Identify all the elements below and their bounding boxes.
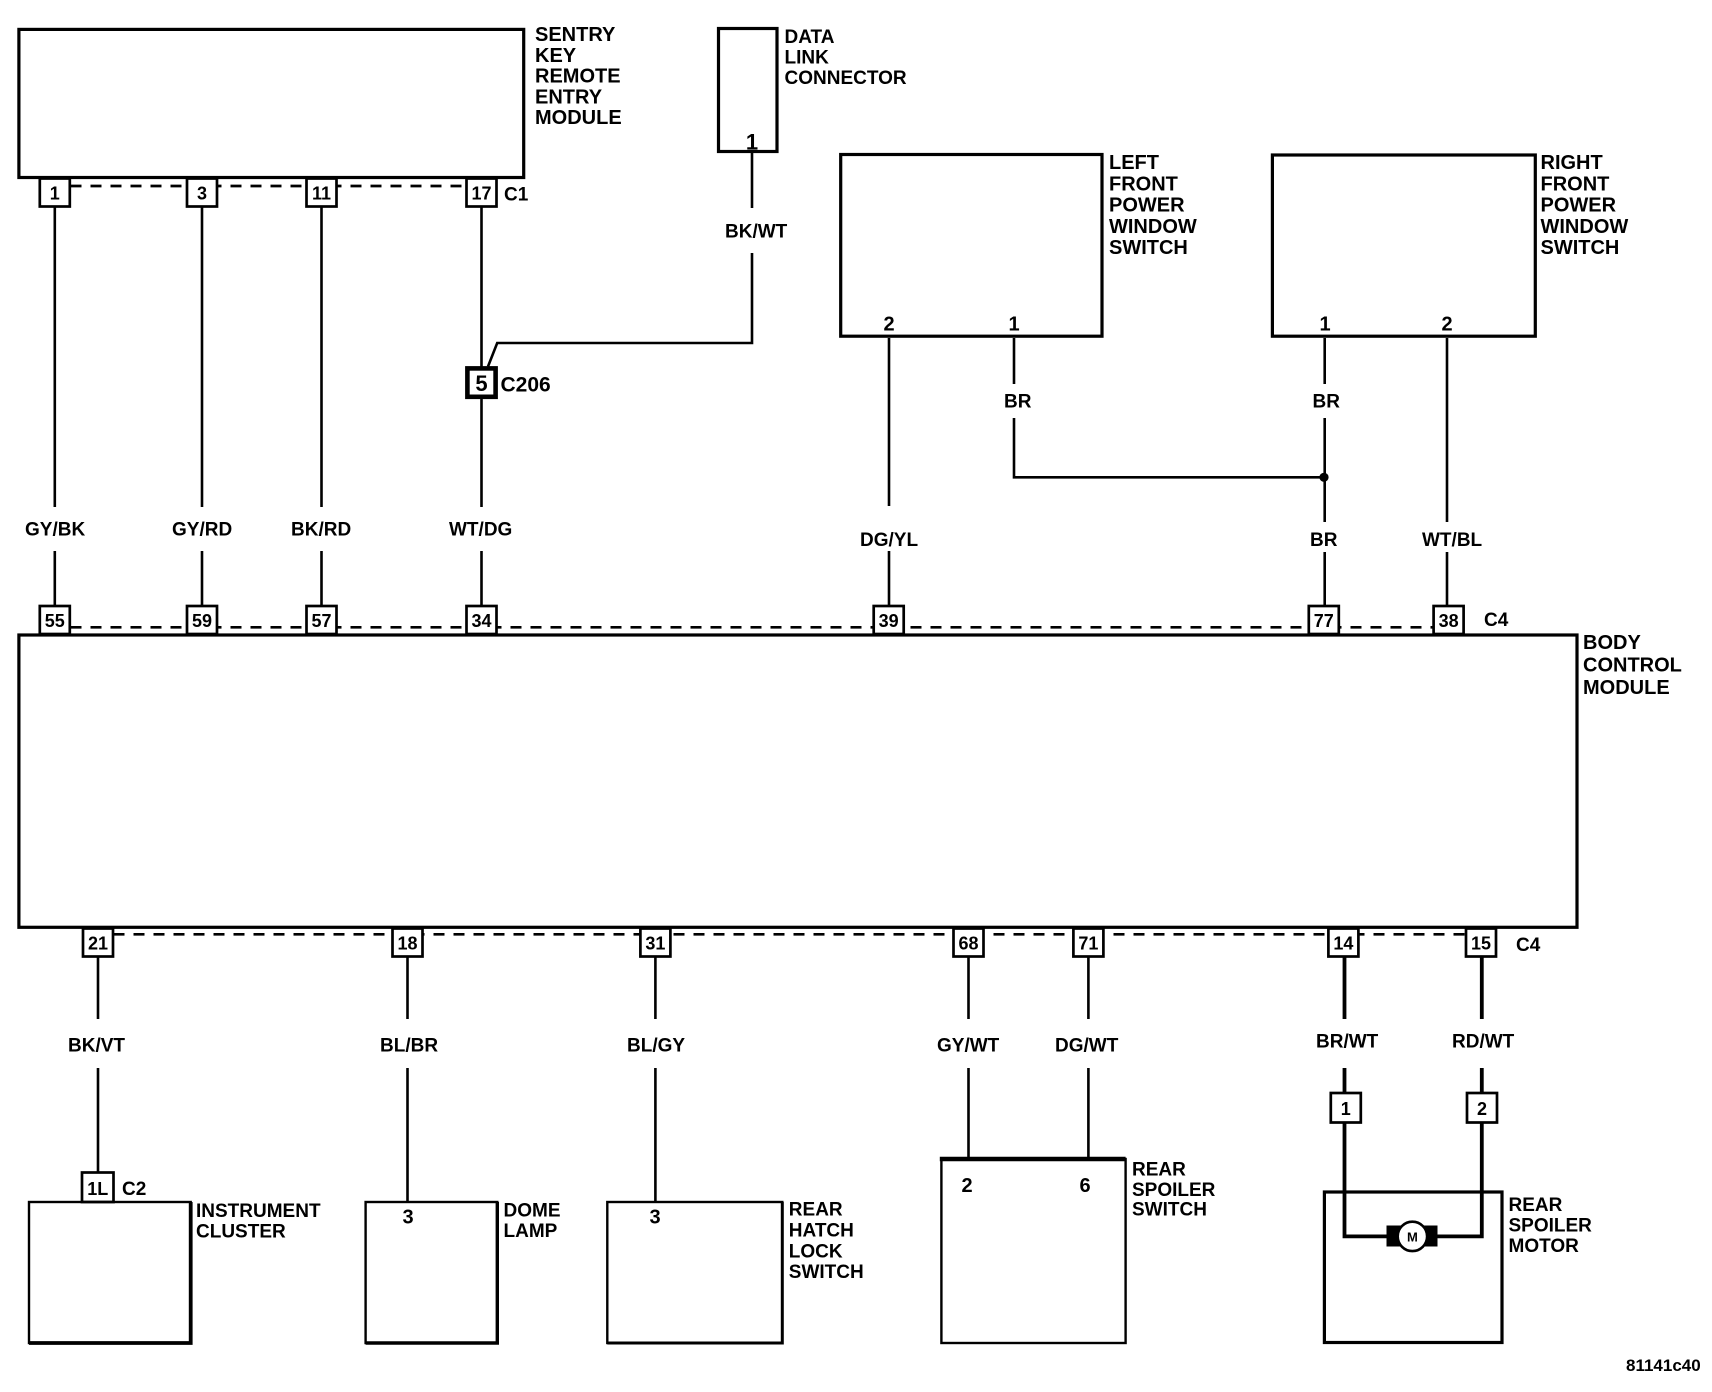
svg-text:CONTROL: CONTROL <box>1583 655 1682 677</box>
sentry key remote entry module label <box>535 24 622 129</box>
dashed connector line C1 <box>71 185 467 188</box>
svg-text:3: 3 <box>649 1207 660 1229</box>
svg-text:RIGHT: RIGHT <box>1541 152 1603 174</box>
rear hatch lock switch label <box>789 1200 864 1284</box>
rear spoiler switch label <box>1132 1160 1216 1221</box>
svg-text:SWITCH: SWITCH <box>1132 1200 1207 1221</box>
svg-text:KEY: KEY <box>535 45 577 67</box>
svg-text:34: 34 <box>471 611 491 631</box>
svg-text:1: 1 <box>50 184 60 204</box>
svg-text:FRONT: FRONT <box>1109 173 1178 195</box>
svg-text:15: 15 <box>1471 934 1491 954</box>
instrument cluster label <box>196 1201 321 1243</box>
svg-text:3: 3 <box>402 1207 413 1229</box>
pin 17 (C1) <box>467 179 497 207</box>
wire BK/RD from pin 11 to pin 57 <box>320 207 323 607</box>
svg-text:GY/WT: GY/WT <box>937 1036 1000 1057</box>
pin 55 (C4) <box>40 606 70 634</box>
svg-text:REAR: REAR <box>1132 1160 1186 1181</box>
wire BK/WT from data link connector to C206 <box>488 152 752 367</box>
svg-text:SENTRY: SENTRY <box>535 24 616 46</box>
wire GY/WT from pin 68 to rear spoiler switch <box>967 957 970 1160</box>
svg-text:81141c40: 81141c40 <box>1626 1356 1701 1375</box>
svg-text:POWER: POWER <box>1541 195 1617 217</box>
svg-text:C1: C1 <box>504 185 529 206</box>
pin 68 (C4) <box>954 929 984 957</box>
svg-text:SWITCH: SWITCH <box>1109 237 1188 259</box>
connector pin 2 of rear spoiler motor <box>1467 1093 1497 1123</box>
pin 57 (C4) <box>307 606 337 634</box>
wire WT/DG from pin 17 through C206 to pin 34 <box>480 207 483 607</box>
junction of BR wires <box>1319 473 1328 482</box>
svg-text:2: 2 <box>883 314 894 336</box>
svg-text:31: 31 <box>645 934 665 954</box>
wire GY/BK from pin 1 to pin 55 <box>53 207 56 607</box>
sentry key remote entry module box <box>19 29 524 177</box>
svg-text:WINDOW: WINDOW <box>1109 216 1197 238</box>
wire from connector 1 to motor <box>1345 1123 1388 1237</box>
wire GY/RD from pin 3 to pin 59 <box>201 207 204 607</box>
svg-text:CLUSTER: CLUSTER <box>196 1222 286 1243</box>
wire WT/BL from right front power window switch pin 2 to pin 38 <box>1446 338 1449 606</box>
connector C206 pin 5 <box>467 368 495 396</box>
svg-text:LAMP: LAMP <box>504 1221 558 1242</box>
svg-text:14: 14 <box>1333 934 1353 954</box>
wire DG/WT from pin 71 to rear spoiler switch <box>1087 957 1090 1160</box>
svg-text:BR/WT: BR/WT <box>1316 1032 1379 1053</box>
pin 31 (C4) <box>640 929 670 957</box>
svg-text:2: 2 <box>961 1175 972 1197</box>
svg-text:38: 38 <box>1439 611 1459 631</box>
svg-text:SPOILER: SPOILER <box>1509 1216 1593 1237</box>
wire BL/BR from pin 18 to dome lamp <box>406 957 409 1203</box>
svg-text:GY/BK: GY/BK <box>25 520 85 541</box>
motor M symbol <box>1387 1222 1438 1251</box>
svg-text:GY/RD: GY/RD <box>172 520 232 541</box>
svg-text:5: 5 <box>475 371 487 396</box>
dashed connector line C4 bottom <box>114 933 1466 936</box>
pin 38 (C4) <box>1434 606 1464 634</box>
svg-text:2: 2 <box>1477 1099 1487 1119</box>
svg-text:FRONT: FRONT <box>1541 173 1610 195</box>
pin 11 (C1) <box>307 179 337 207</box>
svg-text:1: 1 <box>1319 314 1330 336</box>
svg-text:DOME: DOME <box>504 1201 561 1222</box>
svg-text:M: M <box>1407 1230 1418 1245</box>
svg-text:68: 68 <box>958 934 978 954</box>
svg-text:C4: C4 <box>1516 935 1541 956</box>
svg-text:55: 55 <box>45 611 65 631</box>
wire BR from left front power window switch pin 1 to junction <box>1014 338 1324 477</box>
rear spoiler motor label <box>1509 1195 1593 1257</box>
wire BR from right front power window switch pin 1 to pin 77 <box>1323 338 1326 606</box>
rear spoiler motor box <box>1324 1192 1502 1343</box>
svg-text:C2: C2 <box>122 1179 146 1200</box>
svg-text:6: 6 <box>1079 1175 1090 1197</box>
svg-text:INSTRUMENT: INSTRUMENT <box>196 1201 321 1222</box>
svg-text:LEFT: LEFT <box>1109 152 1159 174</box>
svg-text:18: 18 <box>397 934 417 954</box>
svg-text:BR: BR <box>1310 530 1338 551</box>
pin 39 (C4) <box>874 606 904 634</box>
svg-text:BODY: BODY <box>1583 632 1641 654</box>
rear spoiler switch box <box>941 1159 1125 1343</box>
svg-text:3: 3 <box>197 184 207 204</box>
svg-text:BK/WT: BK/WT <box>725 222 788 243</box>
svg-text:57: 57 <box>311 611 331 631</box>
wire BL/GY from pin 31 to rear hatch lock switch <box>654 957 657 1203</box>
wire RD/WT from pin 15 to rear spoiler motor connector <box>1480 957 1484 1094</box>
svg-text:MODULE: MODULE <box>1583 677 1670 699</box>
pin 18 (C4) <box>393 929 423 957</box>
svg-text:RD/WT: RD/WT <box>1452 1032 1515 1053</box>
svg-text:HATCH: HATCH <box>789 1220 854 1241</box>
svg-text:11: 11 <box>312 184 331 204</box>
svg-text:77: 77 <box>1314 611 1334 631</box>
body control module box <box>19 635 1577 927</box>
svg-text:MOTOR: MOTOR <box>1509 1236 1580 1257</box>
svg-text:21: 21 <box>88 934 108 954</box>
pin 1 (C1) <box>40 179 70 207</box>
wire from connector 2 to motor <box>1437 1123 1482 1237</box>
svg-text:1: 1 <box>1008 314 1019 336</box>
right front power window switch label <box>1541 152 1629 259</box>
dome lamp box <box>366 1202 498 1343</box>
svg-text:BL/BR: BL/BR <box>380 1036 438 1057</box>
svg-text:2: 2 <box>1441 314 1452 336</box>
data link connector label <box>785 27 907 89</box>
svg-text:71: 71 <box>1078 934 1098 954</box>
connector C2 pin 1L <box>82 1173 114 1203</box>
svg-text:REMOTE: REMOTE <box>535 66 621 88</box>
left front power window switch label <box>1109 152 1197 259</box>
data link connector box <box>719 29 778 152</box>
svg-text:C206: C206 <box>501 374 551 397</box>
svg-text:1: 1 <box>1341 1099 1351 1119</box>
svg-text:BR: BR <box>1004 392 1032 413</box>
svg-text:WT/BL: WT/BL <box>1422 530 1483 551</box>
pin 14 (C4) <box>1328 929 1358 957</box>
pin 59 (C4) <box>187 606 217 634</box>
instrument cluster box <box>29 1202 191 1343</box>
svg-text:DATA: DATA <box>785 27 835 48</box>
svg-text:C4: C4 <box>1484 610 1509 631</box>
svg-text:SWITCH: SWITCH <box>1541 237 1620 259</box>
dome lamp label <box>504 1201 561 1243</box>
svg-text:BR: BR <box>1313 392 1341 413</box>
pin 71 (C4) <box>1073 929 1103 957</box>
pin 21 (C4) <box>83 929 113 957</box>
pin 3 (C1) <box>187 179 217 207</box>
svg-text:WT/DG: WT/DG <box>449 520 512 541</box>
svg-text:WINDOW: WINDOW <box>1541 216 1629 238</box>
pin 15 (C4) <box>1466 929 1496 957</box>
pin 77 (C4) <box>1309 606 1339 634</box>
rear hatch lock switch box <box>607 1202 782 1343</box>
svg-text:BK/RD: BK/RD <box>291 520 351 541</box>
wire BK/VT from pin 21 to instrument cluster <box>97 957 100 1173</box>
svg-text:LINK: LINK <box>785 48 830 69</box>
wire BR/WT from pin 14 to rear spoiler motor connector <box>1343 957 1347 1094</box>
svg-text:SPOILER: SPOILER <box>1132 1180 1216 1201</box>
svg-text:BL/GY: BL/GY <box>627 1036 685 1057</box>
body control module label <box>1583 632 1682 699</box>
svg-text:REAR: REAR <box>1509 1195 1563 1216</box>
svg-text:CONNECTOR: CONNECTOR <box>785 68 907 89</box>
svg-text:SWITCH: SWITCH <box>789 1262 864 1283</box>
pin 34 (C4) <box>467 606 497 634</box>
svg-text:59: 59 <box>192 611 212 631</box>
svg-text:MODULE: MODULE <box>535 107 622 129</box>
svg-text:17: 17 <box>471 184 491 204</box>
svg-text:BK/VT: BK/VT <box>68 1036 125 1057</box>
right front power window switch box <box>1272 155 1535 336</box>
left front power window switch box <box>841 155 1102 337</box>
svg-text:39: 39 <box>879 611 899 631</box>
connector pin 1 of rear spoiler motor <box>1331 1093 1361 1123</box>
wire DG/YL from left front power window switch pin 2 to pin 39 <box>888 338 891 606</box>
svg-text:ENTRY: ENTRY <box>535 86 603 108</box>
svg-text:1L: 1L <box>87 1179 108 1199</box>
dashed connector line C4 top <box>71 626 1434 629</box>
svg-text:1: 1 <box>746 130 758 155</box>
svg-text:DG/YL: DG/YL <box>860 530 918 551</box>
svg-text:POWER: POWER <box>1109 195 1185 217</box>
svg-text:LOCK: LOCK <box>789 1241 843 1262</box>
svg-text:REAR: REAR <box>789 1200 843 1221</box>
svg-text:DG/WT: DG/WT <box>1055 1036 1119 1057</box>
